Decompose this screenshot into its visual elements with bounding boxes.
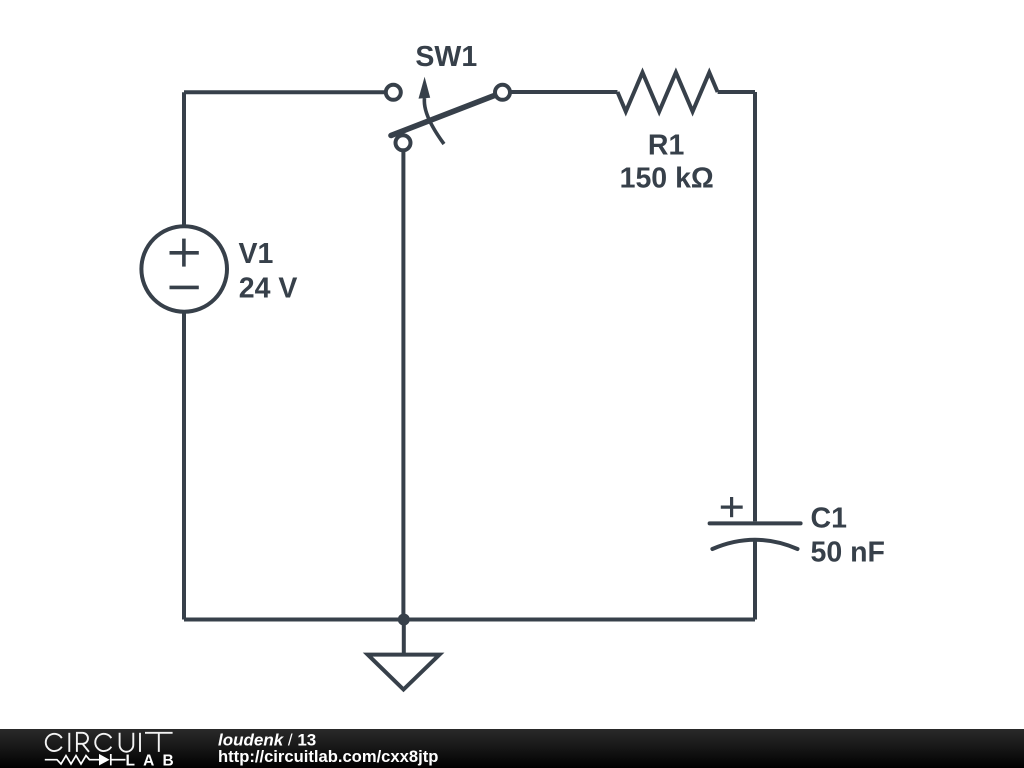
svg-text:50 nF: 50 nF — [811, 537, 885, 569]
wire from right switch terminal to resistor — [503, 90, 618, 94]
svg-text:C1: C1 — [811, 503, 848, 535]
V1 plus sign — [170, 251, 199, 255]
switch lever — [391, 95, 497, 136]
logo resistor-diode glyph — [45, 754, 126, 765]
capacitor C1 top plate — [710, 521, 801, 525]
svg-text:24 V: 24 V — [239, 273, 298, 305]
wire right vertical lower — [753, 540, 757, 620]
svg-text:SW1: SW1 — [415, 41, 477, 73]
svg-text:R1: R1 — [648, 130, 685, 162]
switch terminal left — [386, 85, 401, 100]
V1 minus sign — [170, 286, 199, 290]
ground stem — [402, 620, 406, 655]
svg-text:150 kΩ: 150 kΩ — [620, 163, 714, 195]
junction dot — [398, 614, 410, 626]
wire resistor to right corner — [718, 90, 755, 94]
resistor R1 — [618, 73, 718, 112]
svg-text:http://circuitlab.com/cxx8jtp: http://circuitlab.com/cxx8jtp — [218, 747, 438, 766]
switch SW1 — [386, 85, 510, 151]
capacitor plus sign — [721, 506, 743, 509]
svg-text:LAB: LAB — [126, 752, 182, 768]
footer bar — [0, 729, 1024, 768]
wire left vertical upper — [182, 92, 186, 226]
wire switch bottom terminal to bottom — [401, 150, 405, 620]
wire top-left horizontal — [184, 90, 390, 94]
svg-text:V1: V1 — [239, 238, 274, 270]
switch actuate arrow — [424, 98, 444, 144]
capacitor C1 bottom curved plate — [712, 540, 797, 549]
voltage source V1 — [141, 226, 227, 312]
wire right vertical upper — [753, 92, 757, 521]
wire left vertical lower — [182, 312, 186, 620]
CircuitLab logo text CIRCUIT (thin stroke letters) — [46, 733, 173, 752]
switch terminal bottom — [396, 135, 411, 150]
wire bottom horizontal — [184, 618, 755, 622]
ground triangle — [368, 655, 440, 690]
switch terminal right — [495, 85, 510, 100]
